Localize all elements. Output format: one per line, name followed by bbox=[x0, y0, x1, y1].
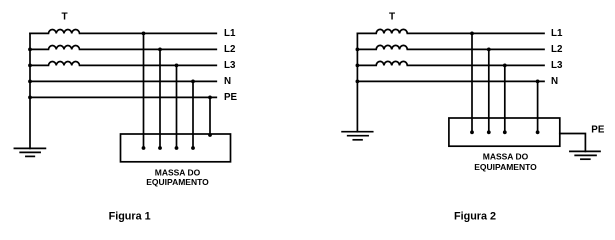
svg-text:L2: L2 bbox=[551, 44, 563, 55]
node: N terminal inside equipment mass (figure 2) bbox=[536, 130, 540, 134]
svg-text:L3: L3 bbox=[224, 60, 236, 71]
junction on L2 tap bbox=[158, 48, 162, 52]
svg-text:L1: L1 bbox=[224, 28, 236, 39]
inductor (transformer winding, line L3) bbox=[30, 61, 216, 65]
svg-text:L3: L3 bbox=[551, 60, 563, 71]
inductor (transformer winding, line L2, figure 2) bbox=[357, 45, 544, 49]
wire: figure 1 left bus vertical bbox=[29, 33, 31, 148]
wire: tap from L2 down to equipment mass (figure 2) bbox=[488, 49, 490, 132]
junction on L2 tap (figure 2) bbox=[487, 48, 491, 52]
junction on bus at PE bbox=[28, 96, 32, 100]
node: L2 terminal inside equipment mass bbox=[158, 146, 162, 150]
node: L1 terminal inside equipment mass bbox=[142, 146, 146, 150]
node: PE terminal on equipment mass box edge bbox=[208, 133, 212, 137]
svg-text:EQUIPAMENTO: EQUIPAMENTO bbox=[474, 162, 537, 172]
wire: line N (figure 1) bbox=[30, 80, 216, 82]
wire: PE stub from box to earth (figure 2) bbox=[560, 134, 586, 152]
svg-text:N: N bbox=[551, 76, 558, 87]
wire: figure 2 left bus vertical bbox=[356, 33, 358, 131]
svg-text:EQUIPAMENTO: EQUIPAMENTO bbox=[146, 177, 209, 187]
junction on bus at L2 (figure 2) bbox=[356, 48, 360, 52]
equipment mass box (figure 1) bbox=[121, 134, 231, 162]
junction on bus at N bbox=[28, 80, 32, 84]
wire: line N (figure 2) bbox=[357, 80, 544, 82]
junction on L3 tap (figure 2) bbox=[503, 64, 507, 68]
wire: tap from L1 down to equipment mass (figure 2) bbox=[471, 33, 473, 132]
wire: line PE (figure 1) bbox=[30, 96, 216, 98]
ground (figure 2, source earth) bbox=[342, 132, 373, 140]
junction on bus at L3 (figure 2) bbox=[356, 64, 360, 68]
svg-text:Figura 2: Figura 2 bbox=[454, 210, 496, 222]
wire: tap from PE down to equipment mass box bbox=[209, 97, 211, 135]
junction on L1 tap (figure 2) bbox=[470, 32, 474, 36]
svg-text:T: T bbox=[61, 12, 67, 23]
node: L2 terminal inside equipment mass (figure 2) bbox=[487, 130, 491, 134]
wire: tap from N down to equipment mass (figure 2) bbox=[537, 81, 539, 132]
junction on N tap (figure 2) bbox=[536, 80, 540, 84]
inductor (transformer winding, line L3, figure 2) bbox=[357, 61, 544, 65]
svg-text:L2: L2 bbox=[224, 44, 236, 55]
junction on bus at N (figure 2) bbox=[356, 80, 360, 84]
svg-text:MASSA DO: MASSA DO bbox=[483, 152, 529, 162]
svg-text:L1: L1 bbox=[551, 28, 563, 39]
svg-text:MASSA DO: MASSA DO bbox=[155, 168, 201, 178]
junction on bus at L2 bbox=[28, 48, 32, 52]
svg-text:T: T bbox=[389, 12, 395, 23]
inductor (transformer winding, line L1, figure 2) bbox=[357, 29, 544, 33]
node: N terminal inside equipment mass bbox=[191, 146, 195, 150]
wire: tap from N down to equipment mass bbox=[192, 81, 194, 148]
ground (figure 1, source earth) bbox=[14, 148, 45, 156]
inductor (transformer winding, line L1) bbox=[30, 29, 216, 33]
wire: tap from L3 down to equipment mass bbox=[176, 65, 178, 148]
label MASSA DO EQUIPAMENTO (figure 2) bbox=[474, 152, 537, 173]
ground (figure 2, PE earth) bbox=[570, 151, 600, 159]
svg-text:N: N bbox=[224, 76, 231, 87]
svg-text:PE: PE bbox=[224, 92, 238, 103]
junction on L3 tap bbox=[175, 64, 179, 68]
junction on PE tap bbox=[208, 96, 212, 100]
inductor (transformer winding, line L2) bbox=[30, 45, 216, 49]
wire: tap from L2 down to equipment mass bbox=[159, 49, 161, 148]
equipment mass box (figure 2) bbox=[449, 118, 560, 146]
wire: tap from L1 down to equipment mass bbox=[143, 33, 145, 148]
junction on N tap bbox=[191, 80, 195, 84]
label MASSA DO EQUIPAMENTO (figure 1) bbox=[146, 168, 209, 188]
node: L1 terminal inside equipment mass (figure 2) bbox=[470, 130, 474, 134]
node: L3 terminal inside equipment mass (figure 2) bbox=[503, 130, 507, 134]
junction on L1 tap bbox=[142, 32, 146, 36]
svg-text:PE: PE bbox=[591, 124, 605, 135]
wire: tap from L3 down to equipment mass (figure 2) bbox=[504, 65, 506, 132]
junction on bus at L3 bbox=[28, 64, 32, 68]
svg-text:Figura 1: Figura 1 bbox=[109, 210, 151, 222]
node: L3 terminal inside equipment mass bbox=[175, 146, 179, 150]
